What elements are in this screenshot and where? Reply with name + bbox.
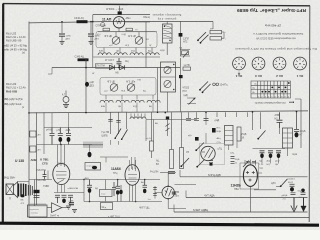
loudspeaker LS1 crossed box <box>6 184 14 195</box>
svg-text:Л3шЦ: Л3шЦ <box>143 16 150 19</box>
resistor RB1 between buses <box>30 131 36 137</box>
wire <box>160 172 176 174</box>
coil L3 <box>130 53 143 55</box>
blob mid <box>212 128 216 133</box>
svg-text:СГВ: СГВ <box>42 162 48 166</box>
svg-text:ДЕЗ: ДЕЗ <box>90 86 95 88</box>
wire <box>111 140 119 145</box>
cap under left resistor <box>168 172 175 174</box>
wire <box>68 142 70 145</box>
wire <box>155 186 162 199</box>
svg-text:4ГД: 4ГД <box>131 51 135 53</box>
grounds right of triangle <box>66 206 71 209</box>
wire <box>289 101 292 103</box>
C3 left resistors tall <box>172 112 182 149</box>
svg-text:Rö1 U23: Rö1 U23 <box>6 82 17 86</box>
table dots <box>262 82 290 93</box>
wire <box>168 185 196 209</box>
wire <box>58 180 65 184</box>
svg-text:переключ: переключ <box>30 209 39 211</box>
resistor C340 (filled) on antenna bus <box>77 20 88 23</box>
earth arrow (filled) <box>303 198 305 207</box>
ground <box>89 42 94 45</box>
svg-text:WB(L)•(A)†1•(T)k: WB(L)•(A)†1•(T)k <box>3 97 24 101</box>
svg-text:Besonderung u. angemess: Besonderung u. angemess <box>152 13 181 16</box>
component circle <box>273 57 286 70</box>
svg-text:б2Ц: б2Ц <box>230 153 234 155</box>
wire <box>251 85 291 94</box>
wire <box>153 188 157 196</box>
component stack right of transformer <box>34 190 40 193</box>
wire <box>136 37 143 44</box>
wire <box>165 188 172 197</box>
svg-text:ВЦБ: ВЦБ <box>217 131 222 133</box>
coil block top <box>130 117 146 119</box>
filled component <box>295 132 299 137</box>
voltage table <box>251 81 291 98</box>
filled component <box>301 206 306 212</box>
wire <box>106 157 135 169</box>
switch near rect tube <box>281 179 288 187</box>
wire <box>197 160 205 168</box>
cap bank 1 <box>50 128 55 145</box>
svg-text:СПб ПЛА: СПб ПЛА <box>95 65 105 68</box>
svg-text:RFT-Super „Libelle“ Typ 6E89: RFT-Super „Libelle“ Typ 6E89 <box>237 7 306 13</box>
svg-text:ЦбПБ: ЦбПБ <box>102 136 109 138</box>
svg-text:12•ИГц: 12•ИГц <box>220 84 229 87</box>
filled component <box>299 63 300 64</box>
resistor x151 <box>151 112 153 141</box>
filled component <box>116 190 119 194</box>
component circle <box>271 87 273 89</box>
component circle <box>265 91 267 93</box>
electrolytic cap blob <box>85 82 89 87</box>
wire <box>47 207 68 209</box>
wire <box>179 170 181 177</box>
component circle <box>164 66 171 73</box>
filled component <box>121 138 123 140</box>
wire <box>55 195 60 203</box>
variable capacitor gang 4 <box>127 84 135 92</box>
component box <box>182 51 189 55</box>
wire <box>173 205 175 213</box>
svg-text:НО;: НО; <box>217 128 221 130</box>
box C2b <box>85 163 101 171</box>
IF transformer T2 box <box>161 62 176 92</box>
wire <box>65 91 67 105</box>
wire <box>34 196 40 198</box>
svg-text:НБ: НБ <box>116 73 120 75</box>
coil L8 <box>147 100 160 102</box>
coil L5 <box>100 100 113 102</box>
svg-text:11Н2Б: 11Н2Б <box>231 184 242 188</box>
wire <box>246 171 255 182</box>
svg-text:Rö 1: Rö 1 <box>296 74 303 78</box>
tube socket Rö2 <box>273 57 286 70</box>
component box <box>126 28 133 31</box>
small resistor top <box>103 28 110 31</box>
cap AПВ <box>277 112 283 128</box>
filled component <box>260 154 264 159</box>
svg-text:дЧЦБ: дЧЦБ <box>282 195 288 197</box>
wire <box>258 81 288 98</box>
tube socket Rö4 <box>233 57 246 70</box>
svg-text:АЦ: АЦ <box>149 105 152 108</box>
resistor R7 <box>210 37 222 40</box>
blob above <box>166 117 169 120</box>
wire vertical x86 <box>85 58 87 112</box>
caps under output tube <box>54 192 84 194</box>
wire <box>128 175 137 182</box>
filled component <box>269 154 273 159</box>
rectifier tube V6 oval <box>243 165 257 187</box>
svg-text:Rö 3: Rö 3 <box>255 74 262 78</box>
trimmer ticks <box>167 120 169 136</box>
wire <box>205 118 207 144</box>
svg-text:ЪЧШТ АДВЦ: ЪЧШТ АДВЦ <box>193 209 208 212</box>
wire <box>92 15 94 58</box>
coil L4 <box>146 53 159 55</box>
svg-text:АПБ: АПБ <box>175 191 180 194</box>
svg-text:WB(L)•(A)†1•L/k: WB(L)•(A)†1•L/k <box>3 102 23 106</box>
svg-text:АЦ/: АЦ/ <box>267 160 271 163</box>
svg-text:μ4 АЦ: μ4 АЦ <box>46 129 53 132</box>
svg-text:μφ: μφ <box>186 152 189 154</box>
svg-text:АГ3 ЦП: АГ3 ЦП <box>128 35 136 38</box>
wire <box>116 18 122 24</box>
svg-text:ЧГ023: ЧГ023 <box>183 88 190 90</box>
tube V3 11AB6 <box>125 165 140 186</box>
pickup arrow component <box>187 98 196 104</box>
wire <box>295 58 305 68</box>
wire <box>89 193 91 202</box>
wire <box>186 119 199 121</box>
component box <box>180 148 184 169</box>
wire <box>44 112 288 156</box>
fuse/cap cluster right <box>290 184 295 186</box>
outer scan frame top <box>3 4 310 6</box>
wire <box>202 151 205 153</box>
wire <box>163 29 173 38</box>
svg-text:АБш: АБш <box>126 17 131 20</box>
svg-text:ПД: ПД <box>179 48 183 50</box>
magic eye tube V5 <box>162 186 174 198</box>
wire <box>275 58 285 68</box>
component circle <box>252 57 265 70</box>
filled component <box>173 64 174 65</box>
resistor tall right <box>237 127 241 141</box>
resistor RB2 between buses <box>30 146 36 152</box>
svg-text:12Нб: 12Нб <box>66 36 72 38</box>
potentiometer P1 with arrow <box>180 50 190 57</box>
wire <box>130 160 136 166</box>
svg-text:АПВ: АПВ <box>275 114 280 117</box>
AGC circle + ground <box>63 97 69 103</box>
wire h y148 <box>253 148 286 150</box>
wire h y144.5 <box>37 144 93 146</box>
svg-text:СПз: СПз <box>217 142 221 144</box>
wire <box>118 28 120 32</box>
filled component <box>202 91 204 93</box>
wire <box>84 142 102 149</box>
resistor R6 <box>210 30 222 33</box>
svg-text:2Бω: 2Бω <box>175 196 180 198</box>
svg-text:1,2б: 1,2б <box>259 164 264 166</box>
switch S2 <box>200 82 208 90</box>
svg-text:дЦД: дЦД <box>215 120 220 122</box>
wire <box>68 195 73 203</box>
filled component <box>193 98 195 100</box>
svg-text:ч ЧИТ ГЦЦ: ч ЧИТ ГЦЦ <box>108 216 120 218</box>
wire <box>287 128 289 148</box>
extra smudge labels top block <box>92 30 165 93</box>
filled component <box>277 154 281 159</box>
svg-text:бЦД: бЦД <box>122 34 127 36</box>
svg-text:АИВ: АИВ <box>31 158 37 162</box>
blob row B <box>179 75 183 78</box>
blob C2a <box>88 152 92 158</box>
antenna arrow (open) <box>293 198 295 210</box>
caps right of box <box>231 157 235 164</box>
wire <box>151 151 153 158</box>
component circle <box>294 57 307 70</box>
keyboard switch box <box>28 205 48 217</box>
svg-text:РчЦ ЛН: РчЦ ЛН <box>150 172 159 174</box>
C3 mid verticals w caps <box>206 112 226 118</box>
filled component <box>196 166 198 168</box>
svg-text:U 138: U 138 <box>15 159 24 163</box>
wire <box>63 105 69 108</box>
switch S1a <box>198 32 206 40</box>
svg-text:4Г 100 Г: 4Г 100 Г <box>105 59 115 62</box>
wire <box>89 145 91 152</box>
svg-text:дЦб: дЦб <box>90 82 95 84</box>
wire <box>180 22 182 57</box>
hatch on IF transformer T1 <box>164 25 172 38</box>
resistor R5 filled <box>179 33 183 37</box>
wire: top short bus <box>93 14 150 16</box>
filled component <box>168 198 169 199</box>
svg-text:НС: НС <box>68 204 72 206</box>
variable capacitor C-gang 1 <box>112 37 120 45</box>
wire <box>108 120 120 123</box>
wire <box>122 130 128 140</box>
svg-text:чн ПБ: чн ПБ <box>184 65 191 67</box>
filled component <box>210 163 213 166</box>
tube socket Rö1 <box>294 57 307 70</box>
wire <box>28 185 32 196</box>
svg-text:дГц/: дГц/ <box>275 161 280 163</box>
outer scan frame left <box>2 4 5 225</box>
phase triangle <box>52 203 62 213</box>
svg-text:дЦг: дЦг <box>188 135 192 137</box>
svg-text:НЦ: НЦ <box>267 164 271 166</box>
coil L1 <box>98 53 111 55</box>
D2 wires <box>68 179 160 181</box>
wire vert x34.5 <box>34 180 36 207</box>
svg-text:НБА: НБА <box>234 188 239 191</box>
svg-text:3:ЦБ: 3:ЦБ <box>235 159 240 161</box>
cap row c3 <box>276 151 281 153</box>
wire <box>166 124 170 132</box>
svg-text:Rö1 U23: Rö1 U23 <box>6 32 17 36</box>
IF transformer T3 <box>225 126 234 146</box>
wire <box>161 76 176 78</box>
svg-text:ЧИТ ГЦЦ: ЧИТ ГЦЦ <box>139 207 149 210</box>
wire <box>105 180 107 202</box>
filled component <box>58 137 62 142</box>
wire <box>47 171 49 180</box>
filled component <box>301 189 305 193</box>
wire <box>106 103 153 113</box>
filled component <box>280 185 282 187</box>
component box <box>150 141 154 151</box>
filled component <box>258 63 259 64</box>
cap row c2 <box>268 151 273 153</box>
detector tube circle V4 <box>201 146 215 160</box>
wire <box>59 34 65 36</box>
component circle <box>268 91 270 93</box>
filled component <box>169 40 170 41</box>
cap pair bottom right <box>291 193 296 195</box>
cap mid bottom <box>209 161 213 163</box>
svg-text:П: П <box>9 197 11 201</box>
svg-text:Die Spannungen sind gegen Chas: Die Spannungen sind gegen Chassis bei 22… <box>235 47 317 51</box>
svg-text:ГЛВ: ГЛВ <box>137 80 141 82</box>
svg-text:4Б12: 4Б12 <box>288 182 294 184</box>
cap row c1 <box>260 151 265 153</box>
wire <box>98 31 157 33</box>
wire <box>243 161 249 168</box>
svg-text:mit eingeschaltetem Gleichr.: mit eingeschaltetem Gleichr. <box>254 101 286 104</box>
svg-text:(v): (v) <box>22 51 25 55</box>
box around detector <box>200 144 225 165</box>
wire <box>90 36 92 41</box>
filled component <box>168 185 169 186</box>
component circle <box>288 82 290 84</box>
cap cluster x144.5 <box>143 180 148 188</box>
wire <box>213 22 224 39</box>
filled component <box>173 89 174 90</box>
transformer T4 <box>283 128 293 148</box>
wire <box>234 58 244 68</box>
wire <box>48 68 52 75</box>
filled component <box>200 42 202 44</box>
wire <box>92 57 94 68</box>
svg-text:п4БВ НЛА: п4БВ НЛА <box>68 187 79 190</box>
component circle <box>285 91 287 93</box>
wire <box>61 36 63 41</box>
wire <box>119 6 121 12</box>
C2 verticals <box>111 112 127 134</box>
filled component <box>238 63 239 64</box>
wire <box>201 35 209 43</box>
wire <box>113 37 120 44</box>
filled component <box>143 189 146 193</box>
wire vertical right x157.5 <box>157 68 159 113</box>
svg-text:+μАБ: +μАБ <box>68 200 74 203</box>
wire <box>245 160 256 166</box>
wire: antenna bus top <box>29 21 213 23</box>
svg-text:1фц: 1фц <box>100 206 105 209</box>
svg-text:Gesamtaufnahme (gemessen bei 2: Gesamtaufnahme (gemessen bei 220 V u. <box>253 32 304 36</box>
svg-text:ДЕЗ: ДЕЗ <box>95 39 100 41</box>
labeled line 3 <box>174 211 308 213</box>
svg-text:ЧГ3 ЦБ: ЧГ3 ЦБ <box>107 82 115 84</box>
svg-text:C340 AЦ: C340 AЦ <box>75 56 85 59</box>
svg-text:50μБ: 50μБ <box>298 191 304 193</box>
outer scan frame bottom thick bar <box>0 223 319 225</box>
wires to tube <box>29 179 52 181</box>
wire <box>204 119 209 121</box>
wire <box>189 112 197 118</box>
svg-text:блок: блок <box>101 194 105 196</box>
wire <box>222 32 225 38</box>
wire <box>165 81 171 87</box>
svg-text:АЦ: АЦ <box>143 90 146 93</box>
component circle <box>164 80 171 87</box>
wire <box>117 195 119 202</box>
svg-text:ДЕЗ: ДЕЗ <box>66 39 71 41</box>
inner schematic frame bottom <box>29 217 309 219</box>
capacitor C10 top <box>117 58 122 68</box>
outer scan frame right <box>308 6 311 222</box>
C block extra wires <box>100 156 128 158</box>
wire <box>145 22 147 68</box>
svg-text:АЦ: АЦ <box>156 160 160 163</box>
extra wires top block <box>104 32 152 53</box>
wire: second row top <box>52 67 180 69</box>
coil L6 <box>116 100 129 102</box>
wire <box>250 173 276 212</box>
wire <box>129 167 136 172</box>
svg-text:ЧГ3 ЦБ: ЧГ3 ЦБ <box>104 36 112 38</box>
triode slashes <box>115 129 121 139</box>
wire <box>72 210 77 213</box>
component circle <box>281 91 283 93</box>
anode resistor (filled) above tube <box>118 11 122 14</box>
svg-text:mit eingestecktem 6E5) 103,5: mit eingestecktem 6E5) 103,5 VA <box>256 36 296 40</box>
filled component <box>199 89 201 91</box>
svg-text:СЦ№1: СЦ№1 <box>288 178 296 181</box>
wire <box>183 52 188 58</box>
band box 2 <box>100 78 156 96</box>
svg-text:АЦБ: АЦБ <box>66 129 71 132</box>
wire <box>165 67 171 73</box>
wire <box>276 186 281 188</box>
tube V3 pins to bus <box>130 184 136 202</box>
wire <box>111 84 118 91</box>
svg-text:ОмЧТ •и: ОмЧТ •и <box>50 216 60 218</box>
filled component <box>195 149 197 151</box>
svg-text:ВД: ВД <box>95 188 98 190</box>
resistor filled B1 C340 <box>78 58 89 61</box>
wire <box>58 145 65 168</box>
filled component <box>67 137 71 142</box>
capacitor to ground node A <box>61 22 63 34</box>
wire <box>58 184 65 192</box>
wire <box>83 180 85 202</box>
filled component <box>292 101 294 103</box>
filled component <box>119 190 122 194</box>
diode D2 <box>120 65 125 69</box>
wire <box>205 148 214 158</box>
svg-text:НГц: НГц <box>113 172 118 175</box>
trimmer cap C2 <box>101 23 105 27</box>
wire <box>62 195 67 197</box>
svg-text:НГД: НГД <box>125 45 130 47</box>
diode D1 <box>110 65 115 69</box>
